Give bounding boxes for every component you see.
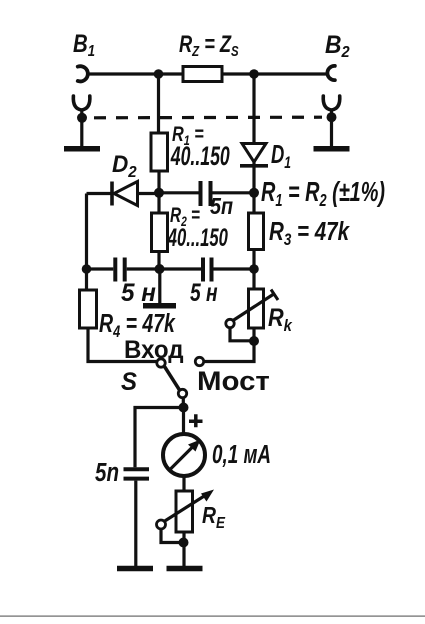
- capacitor C 5n right: [201, 258, 205, 282]
- node on B2 stem: [327, 112, 337, 122]
- Rk wiper arrow: [233, 295, 273, 321]
- wire D2 right to node: [138, 192, 159, 195]
- wire capacitor to right node: [213, 191, 255, 194]
- resistor RZ: [183, 67, 222, 82]
- svg-text:RZ = ZS: RZ = ZS: [179, 31, 239, 60]
- meter M1: [163, 434, 205, 476]
- connector B2 socket: [323, 96, 340, 110]
- wire right branch to R3: [252, 193, 255, 213]
- connector B2 plug: [327, 66, 334, 80]
- wire cap row seg3: [214, 267, 255, 270]
- wire B1 socket stem: [80, 109, 83, 147]
- ground (bottom right): [167, 566, 203, 572]
- wire D1 to node: [252, 162, 255, 193]
- wire RE wiper return: [161, 529, 181, 543]
- connector B1 socket: [73, 96, 90, 110]
- resistor R3: [249, 213, 264, 250]
- wire R3 to cap row: [252, 250, 255, 270]
- switch S throw circle: [178, 389, 186, 397]
- wire R2 to cap row: [157, 252, 160, 270]
- wire to left capacitor branch: [135, 408, 184, 468]
- diode D2: [110, 182, 114, 206]
- svg-text:0,1 мА: 0,1 мА: [212, 439, 271, 469]
- svg-text:5 н: 5 н: [190, 279, 218, 307]
- ground (left top): [64, 146, 100, 152]
- wire Rk top: [252, 269, 255, 289]
- node switch bottom: [179, 403, 189, 413]
- wire node to capacitor 5p: [159, 191, 199, 194]
- dashed mechanical link: [94, 116, 322, 120]
- ground (middle): [143, 303, 176, 309]
- resistor R1: [151, 133, 168, 171]
- node RE bottom: [179, 538, 189, 548]
- svg-text:40..150: 40..150: [170, 140, 230, 171]
- wire throw to junction: [182, 398, 185, 408]
- wire cap row seg1: [87, 267, 114, 270]
- wire Rk wiper return: [230, 328, 252, 341]
- ground (right top): [314, 146, 350, 152]
- wire left branch upper: [157, 74, 160, 133]
- meter needle: [171, 447, 194, 470]
- resistor RE (adjustable): [176, 491, 193, 532]
- RE wiper arrow: [164, 496, 205, 522]
- Rk wiper terminal circle: [226, 319, 234, 327]
- wire centre ground stem: [158, 269, 161, 304]
- diode D1: [242, 144, 266, 163]
- node cap row left: [82, 264, 92, 274]
- svg-text:5 н: 5 н: [121, 280, 156, 307]
- wire Rk bottom: [252, 328, 255, 341]
- capacitor C 5n left: [113, 258, 117, 282]
- ground (bottom left): [117, 566, 153, 572]
- wire meter to RE: [182, 476, 185, 491]
- wire cap row seg2: [127, 267, 201, 270]
- node junction left top: [154, 69, 164, 79]
- node on B1 stem: [77, 113, 87, 123]
- wire B2 socket stem: [330, 109, 333, 147]
- wire top left horizontal: [88, 72, 183, 75]
- node junction mid left: [154, 188, 164, 198]
- terminal Most circle: [195, 357, 203, 365]
- RE wiper terminal circle: [157, 520, 166, 529]
- node cap row centre: [155, 264, 165, 274]
- capacitor C 5n bottom: [124, 467, 150, 471]
- switch S blade: [165, 367, 180, 391]
- capacitor C 5p: [199, 181, 203, 206]
- wire RE to ground: [182, 532, 185, 566]
- svg-text:Мост: Мост: [197, 365, 270, 396]
- node Rk bottom: [249, 336, 259, 346]
- wire to Most terminal: [204, 341, 254, 362]
- wire R4 down and right to switch: [88, 328, 157, 362]
- svg-text:S: S: [121, 369, 138, 397]
- resistor Rk (adjustable): [249, 289, 264, 328]
- svg-text:40...150: 40...150: [167, 225, 228, 252]
- plus sign: [189, 414, 203, 427]
- wire top right horizontal: [222, 72, 328, 75]
- wire R1 to node: [157, 171, 160, 193]
- switch S pole circle: [157, 359, 165, 367]
- svg-text:5п: 5п: [210, 194, 233, 220]
- wire left D2 branch vertical: [85, 194, 88, 291]
- connector B1 plug: [78, 66, 88, 81]
- node junction right top: [249, 69, 259, 79]
- svg-text:5n: 5n: [95, 458, 119, 487]
- resistor R4: [80, 290, 97, 328]
- node junction mid right: [249, 188, 259, 198]
- svg-text:R3 = 47k: R3 = 47k: [269, 217, 350, 250]
- wire D2 left: [87, 192, 113, 195]
- node cap row right: [249, 264, 259, 274]
- wire capacitor to ground: [134, 481, 137, 566]
- wire to meter: [182, 408, 185, 435]
- wire left branch to R2: [157, 193, 160, 213]
- resistor R2: [152, 213, 168, 252]
- bottom rule: [0, 615, 425, 617]
- svg-text:Вход: Вход: [124, 337, 184, 364]
- wire right branch upper: [252, 74, 255, 143]
